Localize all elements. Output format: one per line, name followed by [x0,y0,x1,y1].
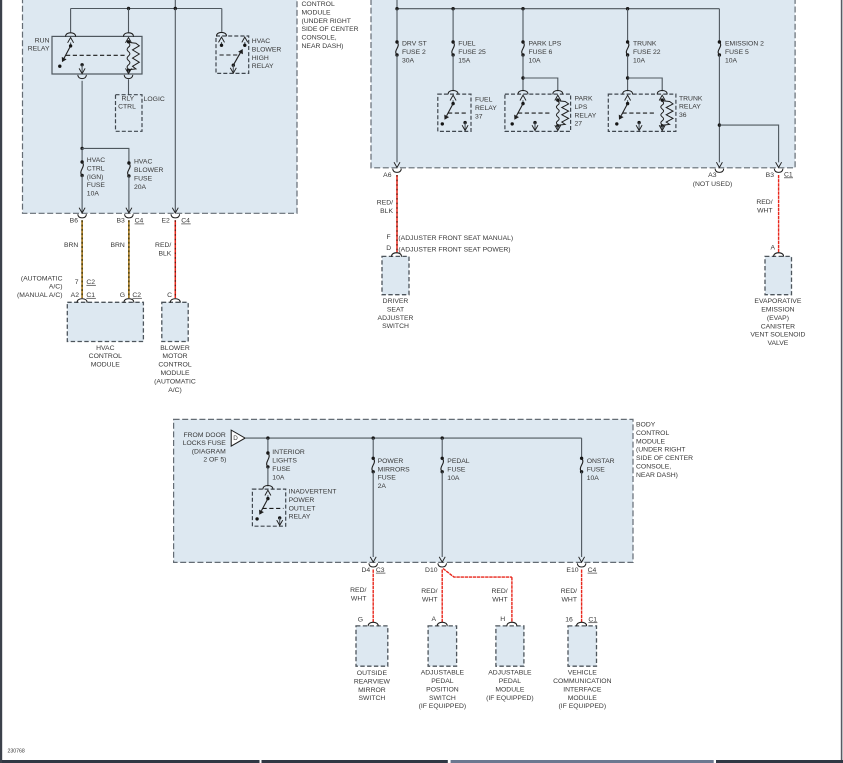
wire: RED/WHT E10 to vcim [581,570,583,623]
switch: run relay contacts [69,44,72,47]
page edge bottom segments [2,760,260,763]
svg-text:LOGIC: LOGIC [144,96,165,103]
svg-text:BRN: BRN [64,242,78,249]
svg-text:FUSE 22: FUSE 22 [633,49,661,56]
svg-text:16: 16 [565,616,573,623]
svg-text:RELAY: RELAY [28,46,50,53]
svg-text:FUSE: FUSE [587,467,606,474]
fuse: EMISSION 2 FUSE 5 10A [718,40,721,43]
svg-text:D: D [233,435,238,442]
page edge right [841,0,843,763]
svg-text:RED/: RED/ [155,242,171,249]
link: hvac high relay dashed actuation [220,54,241,56]
fuse: ONSTAR FUSE 10A [580,457,583,460]
module box: body control module [174,419,633,562]
svg-text:MODULE: MODULE [160,370,190,377]
wire: bus to interior lights fuse [267,438,269,453]
fuse: POWER MIRRORS FUSE 2A [372,457,375,460]
svg-text:FUSE 6: FUSE 6 [529,49,553,56]
svg-text:DRIVER: DRIVER [383,298,409,305]
svg-text:SIDE OF CENTER: SIDE OF CENTER [302,26,359,33]
svg-text:HVAC: HVAC [87,157,105,164]
svg-text:POWER: POWER [289,497,315,504]
svg-text:D4: D4 [361,567,370,574]
svg-text:27: 27 [575,121,583,128]
svg-text:FUEL: FUEL [475,97,493,104]
svg-text:(DIAGRAM: (DIAGRAM [192,448,226,455]
svg-text:(AUTOMATIC: (AUTOMATIC [21,275,63,282]
svg-text:2A: 2A [378,483,387,490]
svg-text:E10: E10 [566,567,578,574]
wire: trunk fuse to relay + branch [627,55,629,91]
fuse: PEDAL FUSE 10A [441,457,444,460]
svg-text:FUSE 25: FUSE 25 [458,49,486,56]
svg-text:COMMUNICATION: COMMUNICATION [553,678,611,685]
wire: bus to E2 [174,9,176,213]
page edge left [0,0,2,763]
svg-text:B3: B3 [766,172,775,179]
wire: hvac blower fuse to B3 [128,176,130,213]
wire: bus to power mirrors fuse [372,438,374,458]
svg-text:TRUNK: TRUNK [679,95,703,102]
svg-text:CONTROL: CONTROL [158,362,191,369]
relay K2: HVAC BLOWER HIGH RELAY box [216,36,249,73]
svg-text:(IGN): (IGN) [87,174,104,181]
svg-text:RELAY: RELAY [252,63,274,70]
node: emission branch junction [718,123,721,126]
wire: bcm bus [245,437,581,439]
svg-text:20A: 20A [134,184,147,191]
pin: hvac high relay nc contact [242,37,248,42]
svg-text:MIRRORS: MIRRORS [378,466,411,473]
svg-text:TRUNK: TRUNK [633,41,657,48]
svg-text:EMISSION 2: EMISSION 2 [725,41,764,48]
coil: run relay coil [127,40,130,43]
svg-text:FUSE 5: FUSE 5 [725,49,749,56]
pin: run relay coil bottom [128,70,130,73]
wire: feed from above [396,0,398,9]
relay: FUEL RELAY 37 [438,94,471,131]
svg-text:VALVE: VALVE [767,340,788,347]
svg-text:BLOWER: BLOWER [160,345,190,352]
svg-text:F: F [387,234,391,241]
pin: run relay output [80,63,83,66]
svg-text:HVAC: HVAC [134,159,152,166]
svg-text:A/C): A/C) [49,284,63,291]
svg-text:RELAY: RELAY [679,104,701,111]
pin: hvac high relay output [232,65,234,72]
svg-text:RUN: RUN [35,37,50,44]
svg-text:CANISTER: CANISTER [761,323,795,330]
svg-text:PEDAL: PEDAL [499,678,522,685]
svg-text:SWITCH: SWITCH [429,695,456,702]
wire: RED/WHT B3 to evap valve [778,175,780,252]
svg-text:10A: 10A [87,191,100,198]
fuse: DRV ST FUSE 2 30A [395,40,398,43]
switch: hvac high relay blade [232,63,235,66]
svg-text:RLY: RLY [122,95,135,102]
node: bus junction at E2 feed [174,7,177,10]
svg-text:BLOWER: BLOWER [134,167,164,174]
svg-text:(NOT USED): (NOT USED) [693,181,733,188]
svg-text:15A: 15A [458,57,471,64]
wire: branch to B3 [719,125,778,162]
svg-text:(ADJUSTER FRONT SEAT POWER): (ADJUSTER FRONT SEAT POWER) [398,246,510,253]
svg-text:FUSE: FUSE [447,467,466,474]
svg-text:10A: 10A [447,475,460,482]
svg-text:SWITCH: SWITCH [358,695,385,702]
wire: fuse to inadvertent relay [267,467,269,487]
wire: drv st fuse to A6 [396,55,398,162]
svg-text:RELAY: RELAY [475,105,497,112]
svg-text:10A: 10A [529,57,542,64]
svg-text:A/C): A/C) [168,387,182,394]
svg-text:INTERFACE: INTERFACE [563,686,602,693]
svg-text:RED/: RED/ [377,200,393,207]
wire: left bus [71,8,222,10]
link: run relay actuation dashed [66,54,126,56]
svg-text:CONTROL: CONTROL [302,1,335,8]
wire: RED/BLK A6 to driver seat switch [396,175,398,252]
svg-text:PEDAL: PEDAL [447,458,470,465]
wire: pedal fuse to D10 [441,472,443,557]
wire W2: BRN to hvac control module [128,220,130,298]
svg-text:RED/: RED/ [561,588,577,595]
svg-text:10A: 10A [725,57,738,64]
svg-text:BRN: BRN [110,242,124,249]
svg-text:10A: 10A [587,475,600,482]
svg-text:EMISSION: EMISSION [761,307,794,314]
svg-text:MIRROR: MIRROR [358,687,386,694]
svg-text:VENT SOLENOID: VENT SOLENOID [750,332,805,339]
module: HVAC CONTROL MODULE [67,302,143,341]
svg-text:REARVIEW: REARVIEW [354,678,391,685]
svg-text:LPS: LPS [575,104,588,111]
svg-text:MODULE: MODULE [302,9,332,16]
module box: fuse block control module (top right) [371,0,795,168]
node: fuse branch junction [80,147,83,150]
node: bcm bus junctions [266,436,269,439]
svg-text:FUSE: FUSE [378,475,397,482]
svg-text:(EVAP): (EVAP) [767,315,789,322]
svg-text:FUSE: FUSE [272,466,291,473]
svg-text:VEHICLE: VEHICLE [568,670,598,677]
svg-text:EVAPORATIVE: EVAPORATIVE [754,298,801,305]
svg-text:PARK LPS: PARK LPS [529,41,562,48]
wire W1: BRN to hvac control module [81,220,83,298]
svg-text:HVAC: HVAC [252,38,270,45]
svg-text:B6: B6 [70,218,79,225]
svg-text:WHT: WHT [492,596,507,603]
svg-text:NEAR DASH): NEAR DASH) [302,43,344,50]
fuse: HVAC BLOWER FUSE 20A [127,161,130,164]
svg-text:SWITCH: SWITCH [382,323,409,330]
svg-text:MODULE: MODULE [636,438,666,445]
wire: junction to hvac ctrl fuse [81,148,83,162]
module: BLOWER MOTOR CONTROL MODULE [162,302,188,341]
svg-text:ADJUSTABLE: ADJUSTABLE [421,670,465,677]
svg-text:10A: 10A [272,474,285,481]
svg-text:FUSE: FUSE [134,175,153,182]
svg-text:(MANUAL A/C): (MANUAL A/C) [17,292,62,299]
svg-text:(ADJUSTER FRONT SEAT MANUAL): (ADJUSTER FRONT SEAT MANUAL) [398,235,513,242]
module: EVAP CANISTER VENT SOLENOID VALVE [765,256,792,294]
module: ADJUSTABLE PEDAL POSITION SWITCH [428,626,457,666]
svg-text:CTRL: CTRL [118,103,136,110]
svg-text:FUEL: FUEL [458,41,476,48]
pin: run relay coil top connector [123,33,133,37]
wire: power mirrors fuse to D4 [372,472,374,557]
svg-text:E2: E2 [161,218,170,225]
svg-text:CONTROL: CONTROL [89,353,122,360]
wire: park lps fuse to relay + branch [522,55,524,91]
svg-text:A: A [431,616,436,623]
svg-text:POSITION: POSITION [426,686,459,693]
svg-text:SIDE OF CENTER: SIDE OF CENTER [636,455,693,462]
svg-text:OUTLET: OUTLET [289,505,316,512]
wire: bus to pedal fuse [441,438,443,458]
svg-text:(UNDER RIGHT: (UNDER RIGHT [636,447,685,454]
wire: RED/WHT D10 to pedal position switch [441,570,443,623]
module box: control module (top left) [23,0,298,213]
svg-text:C: C [167,292,172,299]
svg-text:BODY: BODY [636,422,656,429]
svg-text:RED/: RED/ [350,587,366,594]
svg-text:PEDAL: PEDAL [431,678,454,685]
svg-text:INADVERTENT: INADVERTENT [289,489,337,496]
svg-text:(IF EQUIPPED): (IF EQUIPPED) [559,703,607,710]
svg-text:BLOWER: BLOWER [252,46,282,53]
svg-text:WHT: WHT [351,595,366,602]
svg-text:ONSTAR: ONSTAR [587,458,615,465]
svg-text:MOTOR: MOTOR [162,353,187,360]
fuse: INTERIOR LIGHTS FUSE 10A [266,451,269,454]
svg-text:INTERIOR: INTERIOR [272,449,305,456]
pin: hvac high relay input connector [216,32,226,36]
svg-text:FUSE 2: FUSE 2 [402,49,426,56]
relay: PARK LPS RELAY 27 [505,94,571,131]
svg-text:MODULE: MODULE [495,686,525,693]
svg-text:37: 37 [475,113,483,120]
wire: RED/WHT branch to pedal module [443,569,512,578]
svg-text:RELAY: RELAY [289,514,311,521]
svg-text:FUSE: FUSE [87,182,106,189]
svg-text:ADJUSTABLE: ADJUSTABLE [488,670,532,677]
svg-text:10A: 10A [633,57,646,64]
svg-text:A3: A3 [708,172,717,179]
svg-text:BLK: BLK [158,250,171,257]
fuse: HVAC CTRL (IGN) FUSE 10A [80,160,83,163]
svg-text:OUTSIDE: OUTSIDE [357,670,388,677]
svg-text:PARK: PARK [575,96,593,103]
svg-text:7: 7 [75,279,79,286]
svg-text:G: G [358,616,363,623]
connector triangle D [231,430,245,446]
svg-text:SEAT: SEAT [387,306,404,313]
wire: run relay coil to rly ctrl [128,79,130,94]
fuse: PARK LPS FUSE 6 10A [521,40,524,43]
relay: INADVERTENT POWER OUTLET RELAY [252,489,285,526]
wire: run relay output to fuse junction [81,81,83,149]
module: ADJUSTABLE PEDAL MODULE [496,626,524,666]
wire: branch to hvac blower fuse [82,148,129,162]
svg-text:36: 36 [679,112,687,119]
svg-text:WHT: WHT [422,596,437,603]
svg-text:A2: A2 [71,292,80,299]
svg-text:H: H [500,616,505,623]
svg-text:WHT: WHT [757,207,772,214]
svg-text:30A: 30A [402,57,415,64]
svg-text:FROM DOOR: FROM DOOR [184,432,226,439]
svg-text:CTRL: CTRL [87,165,105,172]
fuse: TRUNK FUSE 22 10A [626,40,629,43]
logic box: RLY CTRL [116,95,143,132]
svg-text:RELAY: RELAY [575,112,597,119]
svg-text:(UNDER RIGHT: (UNDER RIGHT [302,18,351,25]
wire: bus drops to fuses [396,9,398,42]
svg-text:A: A [770,245,775,252]
svg-text:DRV ST: DRV ST [402,41,427,48]
fuse: FUEL FUSE 25 15A [451,40,454,43]
wire W3: RED/BLK to blower motor module [174,220,176,298]
wire: fuel fuse to fuel relay [452,55,454,91]
module: VEHICLE COMMUNICATION INTERFACE MODULE [568,626,597,666]
svg-text:D10: D10 [425,567,438,574]
node: bus junction at coil feed [127,7,130,10]
svg-text:LOCKS FUSE: LOCKS FUSE [183,440,227,447]
svg-text:B3: B3 [116,218,125,225]
wire: bus to run relay coil [128,9,130,33]
wire: hvac ctrl fuse to B6 [81,176,83,213]
svg-text:CONSOLE,: CONSOLE, [302,35,337,42]
svg-text:POWER: POWER [378,458,404,465]
svg-text:A6: A6 [383,172,392,179]
svg-text:NEAR DASH): NEAR DASH) [636,472,678,479]
wire: bus corner to onstar fuse [581,438,583,458]
svg-text:RED/: RED/ [491,588,507,595]
svg-text:(IF EQUIPPED): (IF EQUIPPED) [486,695,534,702]
relay: TRUNK RELAY 36 [608,94,676,131]
wire: bus to hvac blower high relay [221,9,223,32]
svg-text:(AUTOMATIC: (AUTOMATIC [154,378,196,385]
wire: RED/WHT D4 to mirror switch [372,570,374,623]
svg-text:LIGHTS: LIGHTS [272,458,297,465]
svg-text:2 OF 5): 2 OF 5) [203,456,226,463]
svg-text:RED/: RED/ [421,588,437,595]
svg-text:BLK: BLK [380,208,393,215]
svg-text:HIGH: HIGH [252,55,269,62]
node: bus junctions [395,7,398,10]
module: OUTSIDE REARVIEW MIRROR SWITCH [356,626,388,666]
wire: right bus [397,8,719,10]
svg-text:(IF EQUIPPED): (IF EQUIPPED) [419,703,467,710]
wire: emission fuse down to A3 [718,55,720,162]
svg-text:CONTROL: CONTROL [636,430,669,437]
pin: run relay switch connector [66,33,76,37]
svg-text:ADJUSTER: ADJUSTER [378,315,414,322]
wire: bus to run relay switch [70,9,72,33]
svg-text:WHT: WHT [562,596,577,603]
svg-text:HVAC: HVAC [96,345,114,352]
wire: feed from above to E2 branch [174,0,176,9]
svg-text:MODULE: MODULE [91,362,121,369]
svg-text:G: G [120,292,125,299]
module: DRIVER SEAT ADJUSTER SWITCH [382,256,409,294]
svg-text:MODULE: MODULE [568,695,598,702]
svg-text:D: D [386,245,391,252]
relay K1: RUN RELAY box [52,36,142,74]
wire: onstar fuse to E10 [581,472,583,557]
svg-text:RED/: RED/ [756,199,772,206]
svg-text:CONSOLE,: CONSOLE, [636,464,671,471]
svg-text:230768: 230768 [8,749,25,755]
